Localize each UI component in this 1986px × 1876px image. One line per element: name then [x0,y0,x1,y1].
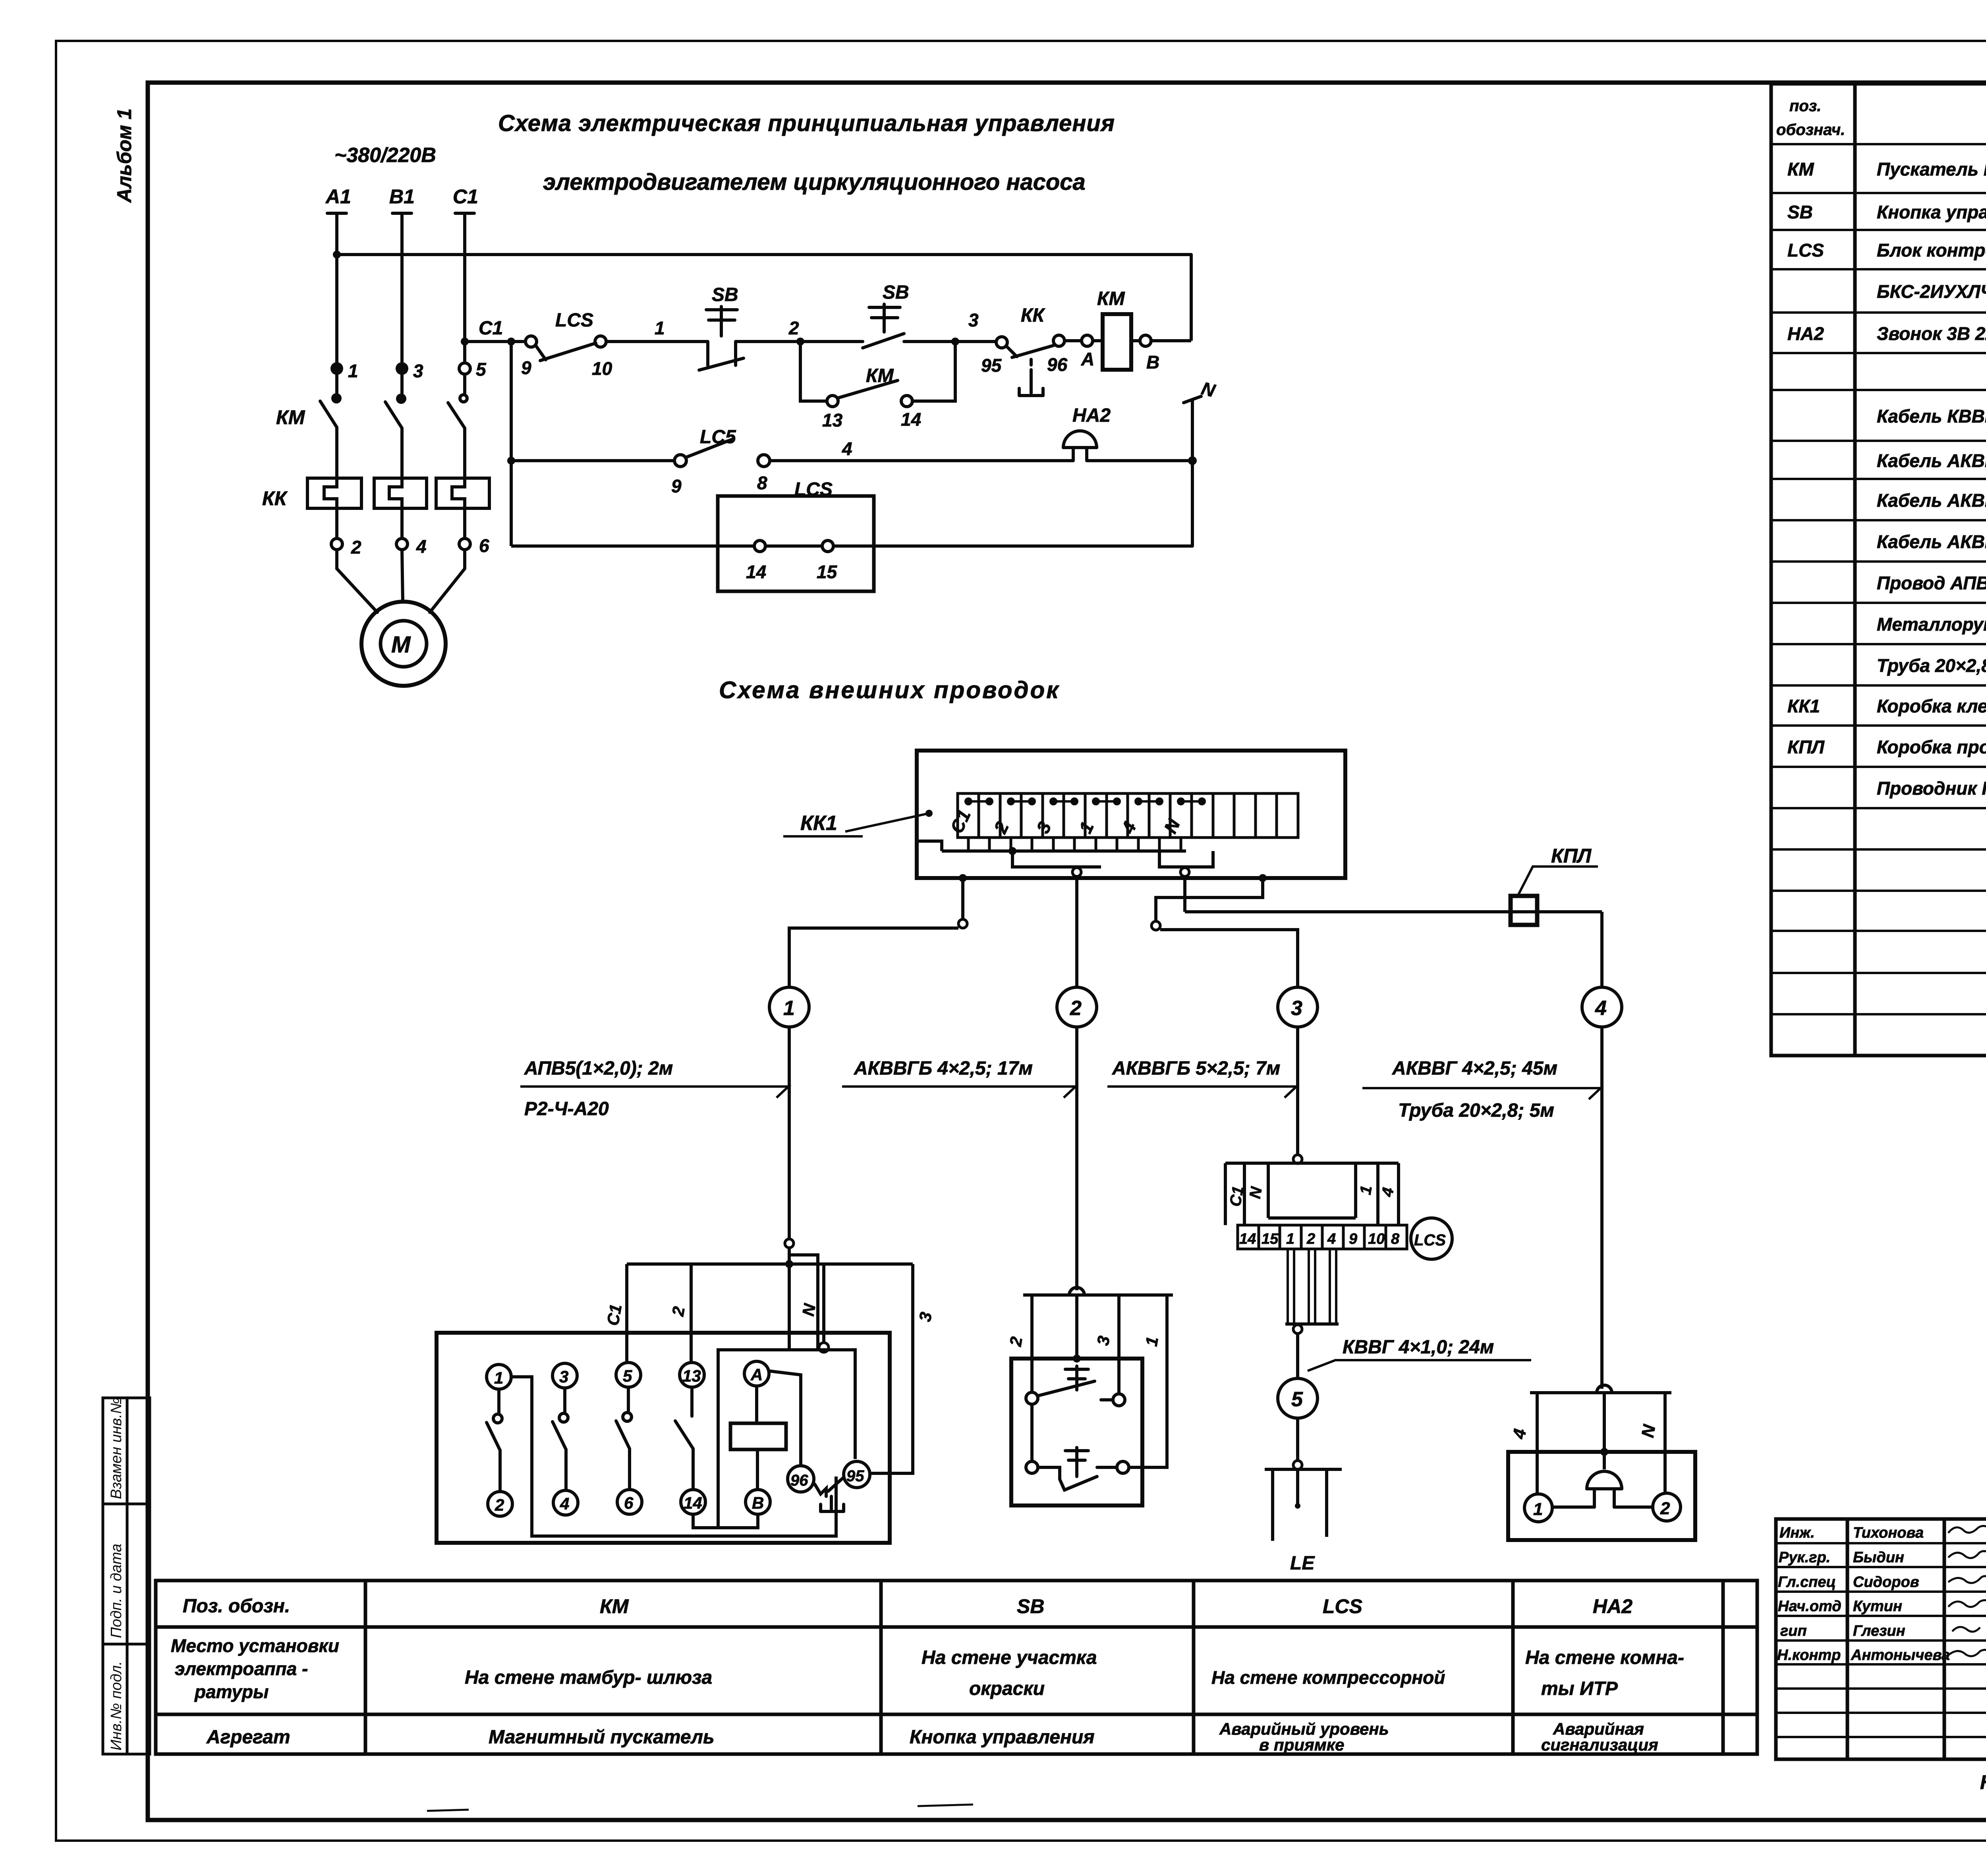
svg-text:1: 1 [1533,1500,1543,1519]
svg-text:Блок контроля сопротивления: Блок контроля сопротивления [1877,240,1986,261]
svg-text:Металлорукав Р2-Ч-А20 ТУ22-1.0: Металлорукав Р2-Ч-А20 ТУ22-1.016-231-86 [1877,614,1986,635]
svg-text:2: 2 [1660,1499,1670,1518]
wire to cable 1 marker [961,878,964,919]
svg-text:9: 9 [1349,1231,1357,1247]
bell unit HA2 feeder bus [1530,1391,1671,1394]
svg-text:14: 14 [684,1494,702,1512]
strip jumper pair 6 [1178,799,1205,804]
node branch junction [507,338,515,345]
wire terminal 4 to motor [402,550,403,602]
thermal relay KK heater A [307,478,361,508]
wire sub bus 2 [1012,851,1101,867]
wire terminal 2 to motor [337,550,377,612]
wire SB drop 2 [1030,1295,1034,1392]
svg-text:Кутин: Кутин [1853,1598,1902,1615]
phase A1 top tick [327,212,346,215]
svg-text:9: 9 [671,476,682,496]
terminal 14 [754,540,765,552]
svg-text:КМ: КМ [866,365,894,386]
svg-text:в приямке: в приямке [1259,1735,1344,1754]
pushbutton station SB box [1011,1359,1142,1505]
svg-text:Нач.отд: Нач.отд [1778,1598,1841,1615]
panel contact 1-2 [487,1389,502,1492]
strip jumper pair 5 [1136,799,1162,804]
svg-text:Глезин: Глезин [1853,1623,1905,1639]
svg-text:Труба 20×2,8; 5м: Труба 20×2,8; 5м [1398,1100,1554,1121]
svg-text:КМ: КМ [600,1595,629,1617]
level sensor block LCS top assembly [1225,1163,1399,1225]
terminal strip of KK1 [958,793,1298,838]
contactor KM pole A [320,375,340,478]
wire HA2 center drop [1603,1393,1606,1469]
wire 96 to A [1064,339,1082,342]
wire 10 to SB stop [606,340,708,343]
svg-text:15: 15 [1262,1231,1279,1247]
svg-text:Место установки: Место установки [171,1635,339,1656]
wire inner bus 1 [917,841,1186,851]
svg-text:4: 4 [416,536,427,557]
cable 3 start marker [1151,921,1160,930]
svg-text:КВВГ 4×1,0; 24м: КВВГ 4×1,0; 24м [1343,1337,1494,1358]
cable 5 end marker [1293,1461,1302,1469]
node N rail rung2 [1188,456,1197,465]
cable 2 label underline [842,1087,1076,1098]
svg-text:Антонычева: Антонычева [1851,1647,1950,1664]
svg-text:1: 1 [783,997,795,1020]
wire control rung 1 left [465,340,525,343]
wire cable 4 to HA2 [1600,1027,1603,1389]
terminal N open circle [819,1343,829,1352]
pushbutton SB start (NO) [800,304,955,348]
label KK1 underline [783,835,863,838]
svg-text:4: 4 [1327,1231,1336,1247]
svg-text:2: 2 [351,537,361,558]
electrode center [1296,1469,1299,1504]
node on branch at rung 2 [507,457,515,465]
svg-text:БКС-2ИУХЛЧ ТУ16 - 656. 024-8: БКС-2ИУХЛЧ ТУ16 - 656. 024-84 [1877,281,1986,302]
svg-text:1: 1 [494,1368,503,1387]
wire rung 2 right [1087,459,1192,462]
svg-text:Провод АПВ 2,0 380 ГОСТ 6323-7: Провод АПВ 2,0 380 ГОСТ 6323-79 [1877,573,1986,593]
svg-text:96: 96 [1047,354,1068,375]
svg-text:НА2: НА2 [1072,405,1111,426]
node SB center [1073,1355,1081,1363]
node HA2 center [1600,1448,1608,1456]
svg-text:поз.: поз. [1789,97,1821,115]
terminal A [1082,335,1093,346]
bell terminal 2 [1653,1493,1681,1521]
phase B1 top tick [392,212,411,215]
strip jumper pair 4 [1093,799,1120,804]
svg-text:2: 2 [1306,1231,1315,1247]
cable 4 label underline [1362,1088,1601,1099]
svg-text:3: 3 [559,1367,568,1386]
node box bottom left [959,874,967,882]
terminal circle 2 [488,1492,512,1516]
phase C1 top tick [455,212,474,215]
node box bottom right [1259,874,1267,882]
svg-text:АПВ5(1×2,0); 2м: АПВ5(1×2,0); 2м [524,1058,673,1079]
wire cable 4 down to circle [1600,912,1603,987]
svg-text:КПЛ: КПЛ [1787,737,1825,757]
motor M inner circle [381,621,427,667]
electrode center tip [1295,1503,1300,1509]
terminal B [1140,335,1151,346]
panel contact 3-4 [553,1388,568,1490]
terminal circle 3 [553,1363,577,1388]
terminal 2 [331,538,342,550]
svg-text:8: 8 [757,473,767,493]
svg-text:Инв.№ подл.: Инв.№ подл. [108,1661,125,1751]
wire coil to B [1131,339,1140,342]
svg-text:Коробка проходная КПЛ-20 ТУ36-: Коробка проходная КПЛ-20 ТУ36-1739-74 [1877,737,1986,757]
strip jumper pair 2 [1008,799,1035,804]
svg-text:Звонок 3В 220В 50Гц/6ВУХЛ4ГОСТ: Звонок 3В 220В 50Гц/6ВУХЛ4ГОСТ7220-80Е [1877,323,1986,344]
svg-text:НА2: НА2 [1593,1595,1632,1617]
wire SB drop 3 [1117,1295,1121,1394]
wire cable 4 down [1183,876,1186,912]
SB start contact inside box [1026,1366,1125,1406]
svg-text:1: 1 [348,361,358,381]
strip drop wires to bus [968,838,1181,851]
top control feed wire [337,253,1191,256]
svg-text:Кабель АКВВГ 4×2,5 ГОСТ 1508-7: Кабель АКВВГ 4×2,5 ГОСТ 1508-78Е [1877,531,1986,552]
wire rung 2 middle [770,459,1073,462]
stray mark bottom 2 [918,1805,973,1806]
wire phase A1 [335,213,338,363]
svg-text:LCS: LCS [794,479,833,500]
svg-text:Поз. обозн.: Поз. обозн. [183,1596,290,1617]
svg-text:обознач.: обознач. [1776,121,1845,139]
svg-text:2: 2 [1070,997,1082,1020]
svg-text:окраски: окраски [969,1678,1045,1699]
relay inner frame [718,1350,855,1528]
svg-text:А: А [750,1365,763,1384]
wire branch to second core [789,1255,818,1350]
svg-text:13: 13 [822,410,843,430]
svg-text:В: В [752,1494,764,1512]
bell symbol in box [1552,1471,1653,1507]
svg-text:14: 14 [1239,1231,1256,1247]
svg-text:гип: гип [1780,1623,1807,1639]
cable 2 end bump [1069,1287,1084,1295]
LCS terminal strip [1238,1225,1407,1249]
branch wire down from node [510,342,513,546]
svg-text:ты ИТР: ты ИТР [1541,1678,1618,1699]
wire phase B1 [400,213,404,363]
label KPL underline and leader [1517,867,1598,897]
cable 1 end marker [785,1239,794,1248]
svg-text:Подп. и дата: Подп. и дата [108,1544,125,1638]
svg-text:1: 1 [655,318,665,338]
wire SB drop 1 [1129,1295,1167,1467]
svg-text:95: 95 [981,355,1002,376]
panel trip contact and anchor [815,1478,844,1511]
svg-text:С1: С1 [1227,1185,1247,1208]
svg-text:LCS: LCS [1414,1231,1446,1249]
terminal circle B [746,1490,770,1514]
starter panel KM box [437,1333,890,1543]
panel contact 13-14 [675,1387,693,1490]
cable marker circle 1 [769,987,809,1027]
svg-text:В: В [1146,352,1159,372]
junction box KPL [1511,896,1537,925]
cable 1 start marker [958,919,967,928]
svg-text:Рук.гр.: Рук.гр. [1779,1549,1830,1566]
wire cable 2 to SB [1075,1027,1078,1290]
wire drop 3 [871,1264,913,1473]
terminal circle 4 [553,1490,578,1515]
thermal relay KK trip contact 95-96 [996,335,1064,396]
electrode right [1325,1469,1328,1537]
wire A to 96 [768,1371,801,1466]
svg-text:КПЛ: КПЛ [1551,845,1592,867]
svg-text:8: 8 [1391,1231,1400,1247]
svg-text:LCS: LCS [1787,240,1824,261]
cable 3 label underline [1107,1087,1296,1098]
wire cable 3 horizontal [1160,930,1298,987]
svg-text:Схема внешних проводок: Схема внешних проводок [719,677,1060,703]
svg-text:Пускатель ПМЛ221002 380ВТУ46-5: Пускатель ПМЛ221002 380ВТУ46-526. 437-78 [1877,159,1986,179]
svg-text:Кабель АКВВГБ5×2,5 ГОСТ 1508-7: Кабель АКВВГБ5×2,5 ГОСТ 1508-78Е [1877,490,1986,511]
svg-text:Быдин: Быдин [1853,1549,1904,1566]
svg-text:Инж.: Инж. [1779,1525,1815,1541]
svg-text:КК1: КК1 [1787,696,1820,716]
svg-text:КК: КК [1021,305,1046,326]
svg-text:КК1: КК1 [800,812,837,835]
neutral rail N [1184,396,1201,546]
node A1 feed junction [333,251,341,259]
cable 1 label underline [520,1087,788,1098]
node C1 control tap [461,338,469,345]
svg-text:SВ: SВ [883,282,909,303]
wire SB center drop [1075,1295,1078,1359]
svg-text:Агрегат: Агрегат [206,1727,290,1748]
svg-text:SВ: SВ [1017,1595,1044,1617]
svg-text:5: 5 [1291,1388,1303,1411]
svg-text:На стене комна-: На стене комна- [1525,1647,1684,1668]
svg-text:5: 5 [623,1366,632,1385]
terminal circle 5 [616,1363,641,1387]
svg-text:А: А [1081,349,1094,369]
wire drop 2 [690,1264,693,1362]
electrode left [1271,1469,1274,1541]
svg-text:Кабель АКВВГБ4×2,5 ГОСТ1508-78: Кабель АКВВГБ4×2,5 ГОСТ1508-78Е [1877,450,1986,471]
svg-text:5: 5 [476,359,487,380]
svg-text:КК: КК [262,487,288,510]
thermal relay KK heater C [436,478,489,508]
svg-text:14: 14 [746,562,766,582]
svg-text:КМ: КМ [1097,288,1125,309]
wire to cable 3 marker [1156,878,1263,921]
terminal circle 13 [680,1363,704,1387]
svg-text:Взамен инв.№: Взамен инв.№ [108,1397,125,1499]
cable marker circle 4 [1582,987,1622,1027]
wire pole A to terminal 2 [335,508,338,538]
svg-text:Р2-Ч-А20: Р2-Ч-А20 [524,1098,609,1119]
title block signature rows [1777,1525,1950,1664]
svg-text:2: 2 [788,318,799,338]
wire cable1 into KM panel [788,1248,791,1350]
wire HA2 drop 4 [1536,1393,1539,1494]
wire cable 2 vertical [1075,876,1078,987]
svg-text:На стене тамбур- шлюза: На стене тамбур- шлюза [465,1667,712,1688]
terminal 15 [822,540,833,552]
cable marker circle 2 [1057,987,1097,1027]
svg-text:Тихонова: Тихонова [1853,1525,1924,1541]
bell HA2 [1063,431,1097,461]
panel terminal 96 [788,1466,814,1492]
cable marker circle 5 [1278,1378,1318,1418]
cable 2 start marker [1072,868,1081,876]
electrode holder bar [1265,1468,1342,1471]
wire node 3 to 95 [955,340,996,343]
panel coil between A and B [730,1386,786,1490]
terminal circle 14 [681,1490,705,1514]
title block frame [1776,1519,1986,1759]
panel terminal 95 [844,1461,870,1488]
svg-text:LЕ: LЕ [1290,1553,1315,1574]
node 2 [796,338,804,345]
wire B to right rail [1151,339,1191,342]
svg-text:Н.контр: Н.контр [1777,1647,1841,1664]
svg-text:2: 2 [495,1496,504,1514]
node bus junction [1008,847,1016,855]
wire rung 3 (LCS block row) [511,544,1192,548]
wire drop C1 [625,1264,628,1362]
svg-text:Гл.спец: Гл.спец [1778,1574,1836,1590]
wire SB stop to node 2 [736,340,800,343]
svg-text:Магнитный пускатель: Магнитный пускатель [489,1727,715,1748]
strip jumper pair 3 [1051,799,1077,804]
strip jumper pair 1 [966,799,992,804]
wire cable 5 [1296,1334,1299,1378]
motor M outer circle [361,602,446,686]
pushbutton SB stop (NC) [699,307,744,370]
svg-text:6: 6 [624,1494,634,1512]
svg-text:LC5: LC5 [700,427,736,448]
svg-text:НА2: НА2 [1787,323,1824,344]
wire drop N [822,1264,825,1343]
svg-text:С1: С1 [479,318,503,339]
svg-text:13: 13 [682,1366,701,1385]
contactor KM pole B [385,375,405,478]
wire phase C1 [463,213,466,363]
cable 3 end marker at LCS [1293,1155,1302,1164]
contactor KM pole C [448,374,467,478]
LCS wires down from strip [1285,1249,1339,1324]
svg-text:3: 3 [413,361,423,381]
svg-text:6: 6 [479,535,489,556]
wire cable 1 horizontal [789,928,958,987]
svg-text:10: 10 [592,358,612,379]
svg-text:Копировал Курочкина: Копировал Курочкина [1980,1771,1986,1793]
wire cable 3 to LCS [1296,1027,1299,1155]
wire cable 4 horizontal run [1185,910,1602,913]
wire jumper 1 to B bottom [511,1377,836,1536]
thermal relay KK heater B [374,478,427,508]
wire HA2 drop N [1663,1393,1667,1494]
SB stop contact inside box [1026,1448,1129,1490]
svg-text:Коробка клеммная У615 ТУ36-12-: Коробка клеммная У615 ТУ36-12-80 [1877,696,1986,716]
svg-text:3: 3 [968,310,979,330]
svg-text:ратуры: ратуры [194,1681,269,1702]
svg-text:95: 95 [846,1467,864,1485]
svg-text:SВ: SВ [712,284,738,305]
svg-text:10: 10 [1368,1231,1385,1247]
svg-text:3: 3 [1291,997,1302,1020]
svg-text:сигнализация: сигнализация [1541,1735,1658,1754]
svg-text:LCS: LCS [555,310,593,331]
svg-text:9: 9 [521,357,531,378]
cable marker circle 3 [1278,987,1318,1027]
svg-text:На стене участка: На стене участка [922,1647,1097,1668]
limit switch LCS contact 9-10 [525,336,606,361]
wire 95 to drop 3 [870,1472,913,1475]
contactor coil KM [1103,314,1131,370]
terminal circle 1 [487,1365,511,1389]
panel contact 5-6 [616,1387,632,1490]
svg-text:На стене компрессорной: На стене компрессорной [1211,1667,1445,1688]
terminal circle A [744,1361,769,1386]
wire right rail down [1190,255,1193,341]
node 3 [951,338,959,345]
cable 4 start marker [1180,868,1189,876]
node cable1 on bus [785,1260,793,1268]
signature squiggles [1948,1526,1986,1656]
SB feeder bus [1023,1293,1173,1297]
svg-text:электродвигателем циркуляционн: электродвигателем циркуляционного насоса [543,169,1086,195]
specification table [1771,84,1986,1056]
svg-text:АКВВГБ 4×2,5; 17м: АКВВГБ 4×2,5; 17м [854,1058,1033,1079]
terminal 6 [459,538,470,550]
wire A to coil [1093,339,1103,342]
wire sub bus 3 [1159,851,1213,867]
wire terminal 6 to motor [430,550,465,612]
left margin stamp strips [103,1398,150,1754]
KM panel feeder bus [627,1262,913,1266]
svg-text:А1: А1 [325,185,351,208]
svg-text:SВ: SВ [1787,202,1813,222]
bell terminal 1 [1524,1494,1552,1522]
svg-text:КМ: КМ [276,406,305,428]
svg-text:Сидоров: Сидоров [1853,1574,1919,1590]
svg-text:Кабель КВВГ 4×1,0 ГОСТ 1508-78: Кабель КВВГ 4×1,0 ГОСТ 1508-78Е [1877,406,1986,427]
cable 5 label underline [1308,1360,1531,1371]
label KK1 leader [845,813,929,832]
svg-text:Проводник П1 ТУ36. 1276-76: Проводник П1 ТУ36. 1276-76 [1877,778,1986,799]
svg-text:15: 15 [817,562,838,582]
terminal 3 [396,362,408,375]
terminal circle 6 [617,1490,642,1514]
svg-text:LCS: LCS [1323,1595,1362,1617]
resistance monitor block LCS [718,496,874,591]
svg-text:АКВВГБ 5×2,5; 7м: АКВВГБ 5×2,5; 7м [1112,1058,1280,1079]
LCS designation circle [1411,1218,1452,1259]
wire 14 to B [693,1514,758,1528]
wire pole B to terminal 4 [400,508,404,538]
label KK1 leader dot [925,810,933,817]
svg-text:АКВВГ 4×2,5; 45м: АКВВГ 4×2,5; 45м [1392,1058,1557,1079]
terminal 4 [396,538,408,550]
stray mark bottom 1 [427,1810,469,1811]
svg-text:4: 4 [1595,997,1607,1020]
svg-text:Кнопка управления КУ9283Г: Кнопка управления КУ9283Г [1877,202,1986,222]
SB link between contacts [1030,1404,1034,1461]
terminal 5 [459,363,470,374]
svg-text:Кнопка управления: Кнопка управления [910,1727,1095,1748]
cable 4 end bump [1597,1385,1612,1393]
